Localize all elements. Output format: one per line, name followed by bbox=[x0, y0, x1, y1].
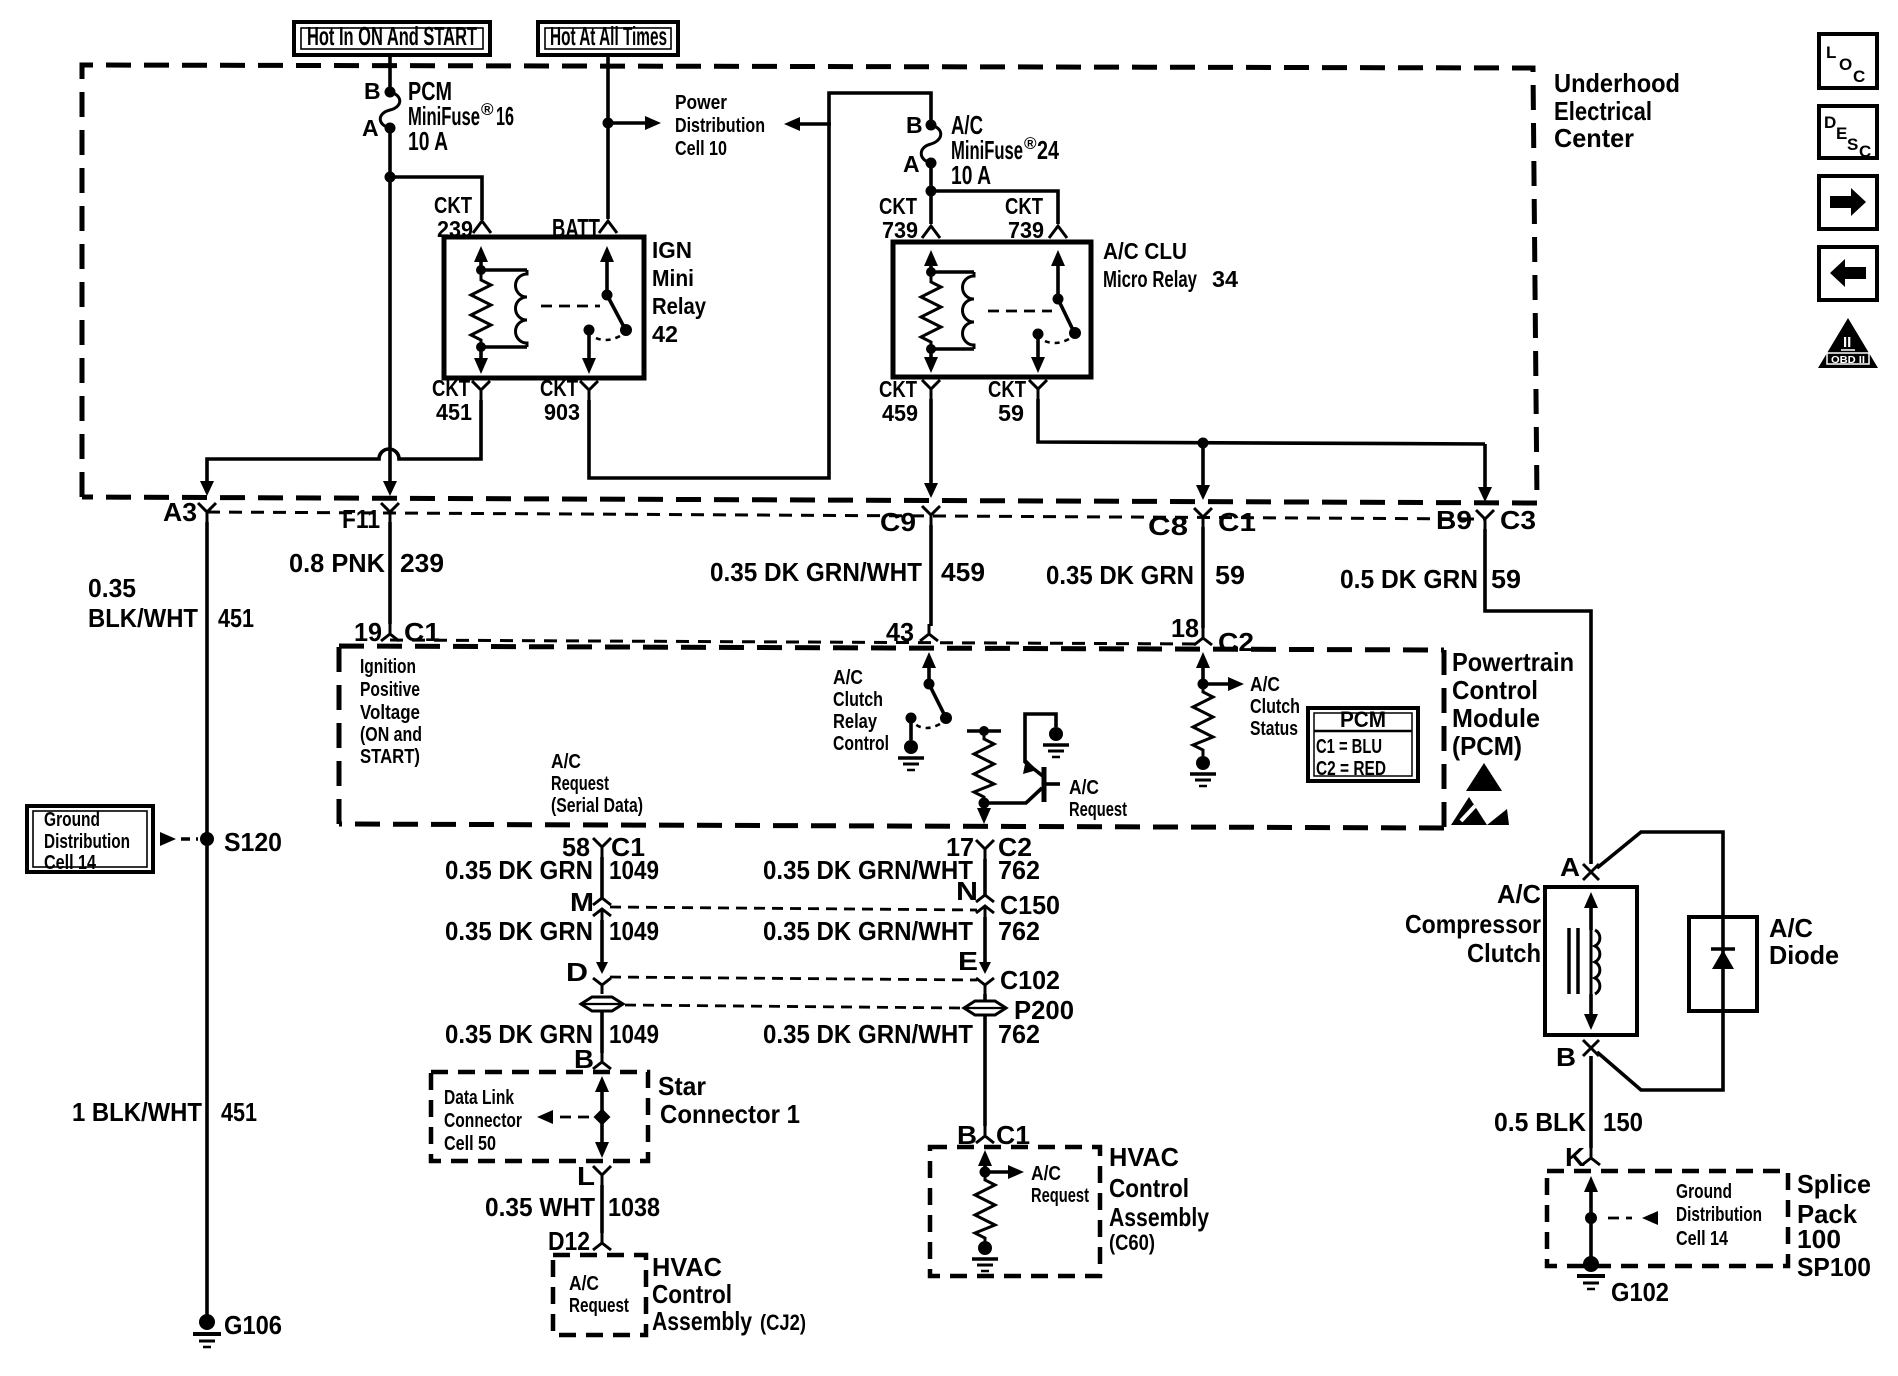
label CKT 903 bbox=[540, 375, 580, 425]
svg-text:0.35 DK GRN/WHT: 0.35 DK GRN/WHT bbox=[763, 1019, 973, 1049]
coil (relay34) bbox=[963, 272, 974, 349]
transistor bar bbox=[1042, 767, 1047, 802]
pin D12 (inverted Y) bbox=[593, 1233, 611, 1250]
svg-text:18: 18 bbox=[1171, 613, 1199, 643]
HVAC Control Assembly (CJ2) dashed box bbox=[553, 1255, 646, 1335]
svg-text:BLK/WHT: BLK/WHT bbox=[88, 603, 198, 633]
svg-text:43: 43 bbox=[886, 617, 914, 647]
label IGN Mini Relay 42 bbox=[652, 237, 706, 347]
svg-text:Electrical: Electrical bbox=[1554, 96, 1652, 126]
dashed connector line grommet-P200 bbox=[625, 1005, 962, 1008]
svg-text:0.35 DK GRN/WHT: 0.35 DK GRN/WHT bbox=[763, 916, 973, 946]
svg-text:Clutch: Clutch bbox=[1467, 938, 1541, 968]
svg-text:739: 739 bbox=[882, 217, 918, 243]
svg-text:Micro Relay: Micro Relay bbox=[1103, 266, 1197, 292]
header box: Hot In ON And START bbox=[294, 21, 490, 55]
svg-text:19: 19 bbox=[354, 617, 382, 647]
relay box IGN Mini Relay 42 bbox=[444, 237, 644, 378]
A/C Diode box bbox=[1689, 917, 1757, 1011]
node: junction CKT59 over C8 bbox=[1198, 438, 1209, 449]
svg-text:Distribution: Distribution bbox=[1676, 1204, 1762, 1226]
PCM connector dotted line bbox=[390, 640, 1203, 644]
label CKT 739 left bbox=[879, 193, 918, 243]
relay control switch arm bbox=[929, 684, 944, 714]
svg-text:(Serial Data): (Serial Data) bbox=[551, 795, 643, 817]
label 0.35 BLK/WHT 451 bbox=[88, 573, 254, 633]
svg-text:Splice: Splice bbox=[1797, 1169, 1871, 1199]
svg-text:A/C: A/C bbox=[1497, 879, 1541, 909]
label Data Link Connector Cell 50 bbox=[444, 1087, 522, 1155]
svg-text:SP100: SP100 bbox=[1797, 1252, 1871, 1282]
svg-text:C2 = RED: C2 = RED bbox=[1316, 758, 1386, 780]
pin B compressor (X) bbox=[1583, 1040, 1599, 1056]
svg-text:A3: A3 bbox=[163, 497, 197, 527]
wire to internal ground (relay control) bbox=[909, 718, 913, 740]
compressor internal wire arrow up bbox=[1584, 892, 1598, 930]
wire B to K bbox=[1589, 1056, 1593, 1148]
svg-text:D: D bbox=[566, 957, 588, 987]
label 0.35 DK GRN/WHT 762 (row2) bbox=[763, 916, 1040, 946]
svg-text:Clutch: Clutch bbox=[1250, 696, 1300, 718]
label Ignition Positive Voltage (ON and START) bbox=[360, 656, 422, 768]
pin CKT 459 (Y) bbox=[922, 380, 940, 399]
svg-text:24: 24 bbox=[1037, 135, 1059, 165]
svg-text:IGN: IGN bbox=[652, 237, 692, 263]
wire coil top link (relay34) bbox=[931, 270, 974, 274]
svg-text:Control: Control bbox=[833, 733, 889, 755]
pin M (double chevron) bbox=[593, 898, 611, 920]
wire 58 to M bbox=[600, 857, 604, 898]
relay42 switch throw dashed arc bbox=[592, 336, 620, 340]
svg-text:C: C bbox=[1853, 67, 1865, 86]
arrowhead down at PCM edge (pin 17) bbox=[977, 808, 991, 824]
label CKT 739 right bbox=[1005, 193, 1044, 243]
relay42 switched output arrow (down) bbox=[582, 330, 596, 374]
pin BATT (chevron) bbox=[599, 221, 617, 233]
wire diode loop bottom bbox=[1597, 1011, 1723, 1090]
pin D (arrow down + chevron) bbox=[593, 962, 611, 994]
svg-text:1 BLK/WHT: 1 BLK/WHT bbox=[72, 1097, 202, 1127]
svg-text:A/C CLU: A/C CLU bbox=[1103, 238, 1187, 264]
label Star Connector 1 bbox=[658, 1071, 800, 1129]
wire M to D bbox=[600, 920, 604, 962]
pin B star connector (inverted Y) bbox=[593, 1053, 611, 1069]
pin 19 C1 (inverted Y) bbox=[381, 624, 399, 641]
pin K (inverted Y) bbox=[1582, 1148, 1600, 1165]
PCM connector color table bbox=[1308, 707, 1418, 781]
label A/C Clutch Status bbox=[1250, 674, 1300, 740]
status branch arrow (right) bbox=[1203, 677, 1244, 691]
A/C clutch status arrow (up, into pin 18) bbox=[1196, 652, 1210, 684]
label Splice Pack 100 SP100 bbox=[1797, 1169, 1871, 1282]
svg-text:CKT: CKT bbox=[434, 192, 472, 218]
node: star connector junction (diamond) bbox=[594, 1109, 611, 1126]
arrowhead down at UEC edge (C8) bbox=[1196, 485, 1210, 500]
wire arrow from Power Distribution Cell 10 (left-pointing) into fuse 24 feed bbox=[784, 117, 831, 131]
label A/C Clutch Relay Control bbox=[833, 667, 889, 755]
clutch plates bbox=[1569, 928, 1578, 994]
svg-text:Control: Control bbox=[652, 1279, 732, 1309]
ground G106 bbox=[193, 1314, 221, 1347]
pin CKT 451 (Y) bbox=[472, 381, 490, 400]
svg-text:S: S bbox=[1847, 135, 1858, 154]
wire C9 down to PCM pin 43 bbox=[929, 525, 933, 626]
label 0.35 DK GRN/WHT 459 bbox=[710, 557, 985, 587]
pin 58 C1 (Y) bbox=[593, 838, 611, 857]
HVAC Control Assembly (C60) dashed box bbox=[930, 1147, 1100, 1276]
svg-text:C1 = BLU: C1 = BLU bbox=[1316, 736, 1382, 758]
node: junction at fuse 24 output bbox=[926, 186, 937, 197]
wire P200 to B bbox=[983, 1015, 987, 1126]
pin N (double chevron) bbox=[976, 895, 994, 917]
icon arrow left bbox=[1819, 247, 1877, 300]
node: switch arm contact (relay34) bbox=[1069, 327, 1081, 339]
svg-text:(PCM): (PCM) bbox=[1452, 731, 1522, 761]
svg-text:Status: Status bbox=[1250, 718, 1298, 740]
svg-text:(CJ2): (CJ2) bbox=[760, 1310, 806, 1335]
svg-text:®: ® bbox=[1024, 134, 1037, 153]
Star Connector 1 dashed box bbox=[431, 1072, 648, 1161]
svg-text:(ON and: (ON and bbox=[360, 724, 422, 746]
pin A compressor (X) bbox=[1583, 864, 1599, 880]
wire CKT 451 run to A3 (hops over F11 wire) bbox=[207, 400, 481, 485]
label A/C Request (Serial Data) bbox=[551, 751, 643, 817]
header box: Hot At All Times bbox=[538, 21, 678, 55]
svg-text:CKT: CKT bbox=[879, 193, 917, 219]
svg-text:1049: 1049 bbox=[609, 1019, 659, 1049]
svg-text:762: 762 bbox=[998, 916, 1040, 946]
A/C Compressor Clutch box bbox=[1545, 887, 1637, 1035]
svg-text:459: 459 bbox=[941, 557, 985, 587]
label 0.5 BLK 150 bbox=[1494, 1107, 1643, 1137]
wire 17 to N bbox=[983, 859, 987, 895]
svg-text:Ground: Ground bbox=[44, 809, 100, 831]
svg-text:E: E bbox=[1836, 124, 1847, 143]
wire A3 down full left column bbox=[205, 522, 209, 1316]
svg-text:0.35 DK GRN: 0.35 DK GRN bbox=[445, 855, 593, 885]
relay34 switched output arrow (down) bbox=[1031, 334, 1045, 373]
pin B C1 (inverted Y) bbox=[976, 1126, 994, 1143]
label A/C Compressor Clutch bbox=[1405, 879, 1541, 968]
node: splice junction SP100 bbox=[1585, 1212, 1597, 1224]
label CKT 459 bbox=[879, 376, 918, 426]
relay42 switch arm bbox=[607, 295, 624, 327]
relay34 coil-side pin arrow (up) bbox=[924, 250, 938, 272]
svg-text:Distribution: Distribution bbox=[44, 831, 130, 853]
svg-text:A/C: A/C bbox=[1031, 1163, 1061, 1185]
wire E to P200 bbox=[983, 994, 987, 1001]
svg-text:1049: 1049 bbox=[609, 916, 659, 946]
svg-text:S120: S120 bbox=[224, 827, 282, 857]
svg-text:C1: C1 bbox=[404, 617, 440, 647]
svg-text:START): START) bbox=[360, 746, 420, 768]
svg-text:C102: C102 bbox=[1000, 965, 1060, 995]
svg-text:Star: Star bbox=[658, 1071, 706, 1101]
svg-text:O: O bbox=[1839, 55, 1852, 74]
svg-text:150: 150 bbox=[1603, 1107, 1643, 1137]
transistor collector with arrow bbox=[1023, 759, 1044, 777]
svg-text:1049: 1049 bbox=[609, 855, 659, 885]
label 0.35 DK GRN/WHT 762 (row3) bbox=[763, 1019, 1040, 1049]
svg-text:B: B bbox=[364, 78, 381, 104]
splice pack wire arrow (up) bbox=[1584, 1176, 1598, 1260]
svg-text:0.35 DK GRN/WHT: 0.35 DK GRN/WHT bbox=[710, 557, 922, 587]
node: switched output (relay42) bbox=[584, 325, 595, 336]
icon LOC bbox=[1819, 34, 1877, 88]
pin CKT 59 (Y) bbox=[1029, 380, 1047, 399]
svg-text:C3: C3 bbox=[1500, 505, 1536, 535]
svg-text:59: 59 bbox=[998, 400, 1024, 426]
svg-text:Relay: Relay bbox=[833, 711, 878, 733]
arrow from ground distribution to S120 bbox=[160, 832, 198, 846]
label CKT 239 bbox=[434, 192, 473, 242]
ground G102 bbox=[1577, 1256, 1605, 1289]
label A/C CLU Micro Relay 34 bbox=[1103, 238, 1238, 292]
relay42 switch common arrow (up) bbox=[600, 246, 614, 295]
node: junction on BATT wire bbox=[603, 118, 614, 129]
svg-text:Connector: Connector bbox=[444, 1110, 522, 1132]
svg-text:G106: G106 bbox=[224, 1310, 282, 1340]
resistor (relay42) bbox=[471, 270, 491, 348]
label CKT 59 bbox=[988, 376, 1026, 426]
transistor base stub bbox=[1044, 782, 1060, 786]
svg-text:C8: C8 bbox=[1148, 511, 1188, 541]
relay control dashed arc bbox=[915, 724, 940, 728]
wire coil top link bbox=[481, 268, 527, 272]
svg-text:Request: Request bbox=[569, 1295, 629, 1317]
svg-text:D: D bbox=[1824, 113, 1836, 132]
svg-text:PCM: PCM bbox=[1340, 707, 1386, 732]
svg-text:Module: Module bbox=[1452, 703, 1540, 733]
node: relay control arm contact bbox=[940, 712, 952, 724]
pin CKT 739 left (chevron) bbox=[922, 226, 940, 238]
svg-text:C9: C9 bbox=[880, 507, 916, 537]
node: coil top junction (relay34) bbox=[926, 267, 936, 277]
svg-text:Cell 14: Cell 14 bbox=[1676, 1228, 1729, 1250]
svg-text:0.35 DK GRN/WHT: 0.35 DK GRN/WHT bbox=[763, 855, 973, 885]
pin E (arrow down + chevron) bbox=[976, 962, 994, 994]
compressor internal wire arrow down bbox=[1584, 994, 1598, 1030]
svg-text:100: 100 bbox=[1797, 1224, 1841, 1254]
svg-text:L: L bbox=[577, 1161, 595, 1191]
label A/C Request (CJ2) bbox=[569, 1273, 629, 1317]
relay42 coil-side pin arrow (up) bbox=[474, 246, 488, 270]
svg-text:59: 59 bbox=[1491, 564, 1521, 594]
label 1 BLK/WHT 451 bbox=[72, 1097, 257, 1127]
label 0.35 DK GRN 1049 (row1) bbox=[445, 855, 659, 885]
svg-text:E: E bbox=[958, 946, 978, 976]
svg-text:A: A bbox=[1560, 852, 1580, 882]
svg-text:Ground: Ground bbox=[1676, 1181, 1732, 1203]
svg-text:0.35 DK GRN: 0.35 DK GRN bbox=[445, 916, 593, 946]
label A/C Request (C60) bbox=[1031, 1163, 1089, 1207]
svg-text:Clutch: Clutch bbox=[833, 689, 883, 711]
grommet (left, pass-through) bbox=[581, 997, 623, 1011]
svg-text:CKT: CKT bbox=[432, 375, 470, 401]
PCM dashed box bbox=[339, 646, 1444, 828]
pin C8/C1 (Y) bbox=[1194, 508, 1212, 527]
wire branch to relay CKT 239 pin bbox=[390, 177, 482, 220]
dashed arrow to Ground Distribution Cell 14 bbox=[1608, 1211, 1658, 1225]
wire CKT 59 run bbox=[1038, 399, 1485, 444]
relay34 switch arm bbox=[1058, 299, 1073, 330]
Ground Distribution Cell 14 box (left) bbox=[27, 806, 153, 874]
svg-text:Center: Center bbox=[1554, 123, 1634, 153]
label A/C Request (transistor) bbox=[1069, 777, 1127, 821]
svg-text:A/C: A/C bbox=[833, 667, 863, 689]
node: coil top junction bbox=[476, 265, 486, 275]
svg-text:903: 903 bbox=[544, 399, 580, 425]
svg-text:G102: G102 bbox=[1611, 1277, 1669, 1307]
svg-text:34: 34 bbox=[1212, 266, 1238, 292]
wire branch to relay CKT 739 right pin bbox=[931, 191, 1058, 224]
star connector wire arrow (up) bbox=[595, 1076, 609, 1112]
pin CKT 739 right (chevron) bbox=[1049, 226, 1067, 238]
A/C clutch relay control arrow (up, into pin 43) bbox=[922, 652, 936, 684]
svg-text:Voltage: Voltage bbox=[360, 702, 420, 724]
connector strip dotted line below UEC bbox=[207, 512, 1485, 519]
svg-text:Powertrain: Powertrain bbox=[1452, 647, 1574, 677]
pin CKT 903 (Y) bbox=[580, 381, 598, 400]
label HVAC Control Assembly (C60) bbox=[1109, 1142, 1209, 1255]
Underhood Electrical Center label bbox=[1554, 68, 1680, 153]
wire CKT 459 down to C9 bbox=[929, 399, 933, 487]
wire down to B9 bbox=[1483, 444, 1487, 491]
icon DESC bbox=[1819, 106, 1877, 161]
pin C9 (Y) bbox=[922, 506, 940, 525]
svg-text:A/C: A/C bbox=[1769, 913, 1813, 943]
svg-text:II: II bbox=[1843, 334, 1851, 351]
svg-text:M: M bbox=[570, 887, 594, 917]
grommet P200 bbox=[964, 1001, 1006, 1015]
label 0.35 WHT 1038 bbox=[485, 1192, 660, 1222]
wire from fuse A down to junction bbox=[388, 131, 392, 180]
diode symbol bbox=[1711, 917, 1735, 1011]
wire F11 drop from junction bbox=[388, 177, 392, 485]
wire emitter down to pin 17 bbox=[982, 803, 986, 812]
icon arrow right bbox=[1819, 176, 1877, 229]
svg-text:Hot In ON And START: Hot In ON And START bbox=[307, 21, 477, 51]
label CKT 451 bbox=[432, 375, 472, 425]
svg-text:451: 451 bbox=[436, 399, 472, 425]
svg-text:0.35 DK GRN: 0.35 DK GRN bbox=[445, 1019, 593, 1049]
svg-text:10 A: 10 A bbox=[951, 160, 991, 190]
label 0.35 DK GRN/WHT 762 (row1) bbox=[763, 855, 1040, 885]
svg-text:HVAC: HVAC bbox=[652, 1252, 722, 1282]
node: status junction bbox=[1198, 679, 1209, 690]
pin CKT 239 (chevron) bbox=[473, 221, 491, 233]
label 0.35 DK GRN 59 bbox=[1046, 560, 1245, 590]
svg-text:1038: 1038 bbox=[608, 1192, 660, 1222]
svg-text:OBD II: OBD II bbox=[1831, 355, 1865, 366]
Underhood Electrical Center dashed box bbox=[82, 65, 1537, 503]
label Ground Distribution Cell 14 (right) bbox=[1676, 1181, 1762, 1250]
svg-text:B: B bbox=[1556, 1042, 1576, 1072]
wire L to D12 bbox=[600, 1185, 604, 1233]
pin 43 (inverted Y) bbox=[920, 624, 938, 641]
wire C8 down to PCM pin 18 bbox=[1201, 527, 1205, 628]
svg-text:0.35 WHT: 0.35 WHT bbox=[485, 1192, 595, 1222]
svg-text:Request: Request bbox=[1069, 799, 1127, 821]
label 0.8 PNK 239 bbox=[289, 548, 444, 578]
wire CKT 903 run up to fuse 24 feed bbox=[589, 93, 931, 478]
label HVAC Control Assembly (CJ2) bbox=[652, 1252, 806, 1336]
collector loop to ground bbox=[1025, 714, 1056, 763]
relay34 coil-side output arrow (down) bbox=[924, 349, 938, 373]
svg-text:Assembly: Assembly bbox=[652, 1306, 752, 1336]
ESD sensitivity symbol bbox=[1451, 763, 1509, 825]
label Power Distribution Cell 10 bbox=[675, 92, 765, 160]
fuse PCM MiniFuse 16 10A bbox=[362, 76, 514, 156]
node: switched output (relay34) bbox=[1033, 329, 1044, 340]
svg-text:42: 42 bbox=[652, 321, 678, 347]
svg-text:C: C bbox=[1859, 142, 1871, 161]
HVAC request branch arrow (right) bbox=[985, 1165, 1024, 1179]
arrowhead down at UEC edge (B9) bbox=[1478, 487, 1492, 502]
label 0.35 DK GRN 1049 (row2) bbox=[445, 916, 659, 946]
svg-text:Mini: Mini bbox=[652, 265, 694, 291]
coil (relay42) bbox=[516, 270, 528, 347]
svg-text:451: 451 bbox=[218, 603, 254, 633]
pin 17 C2 (Y) bbox=[976, 840, 994, 859]
arrowhead down at UEC edge (F11) bbox=[383, 481, 397, 496]
svg-text:Control: Control bbox=[1452, 675, 1538, 705]
svg-text:C1: C1 bbox=[1218, 507, 1256, 537]
node: coil bottom junction bbox=[476, 342, 486, 352]
svg-text:Request: Request bbox=[551, 773, 609, 795]
Splice Pack 100 dashed box bbox=[1547, 1171, 1788, 1266]
pin L (Y) bbox=[593, 1166, 611, 1185]
clutch coil bbox=[1591, 928, 1600, 996]
pin B9/C3 (Y) bbox=[1476, 510, 1494, 529]
svg-text:239: 239 bbox=[400, 548, 444, 578]
wire grommet to B bbox=[600, 1011, 604, 1053]
relay34 switch common arrow (up) bbox=[1051, 250, 1065, 299]
HVAC C60 wire arrow (up) bbox=[978, 1150, 992, 1172]
svg-text:Cell 10: Cell 10 bbox=[675, 138, 727, 160]
resistor (A/C request base) bbox=[974, 731, 994, 803]
svg-text:10 A: 10 A bbox=[408, 126, 448, 156]
relay box A/C CLU Micro Relay 34 bbox=[893, 242, 1091, 377]
wire diode loop top bbox=[1597, 832, 1723, 917]
node: splice S120 bbox=[200, 832, 214, 846]
node: coil bottom junction (relay34) bbox=[926, 344, 936, 354]
svg-text:739: 739 bbox=[1008, 217, 1044, 243]
node: HVAC request junction bbox=[980, 1167, 991, 1178]
arrowhead down at UEC edge (C9) bbox=[924, 483, 938, 498]
wire F11 down to PCM pin 19 bbox=[388, 522, 392, 624]
wire from fuse 24 A to junction bbox=[929, 166, 933, 194]
svg-text:A: A bbox=[903, 151, 920, 177]
svg-text:HVAC: HVAC bbox=[1109, 1142, 1179, 1172]
svg-text:0.8 PNK: 0.8 PNK bbox=[289, 548, 385, 578]
star connector wire arrow (down) bbox=[595, 1123, 609, 1158]
svg-text:Diode: Diode bbox=[1769, 940, 1839, 970]
dashed connector line D-E (C102) bbox=[610, 977, 977, 980]
label 0.5 DK GRN 59 bbox=[1340, 564, 1521, 594]
label A/C Diode bbox=[1769, 913, 1839, 970]
svg-text:451: 451 bbox=[221, 1097, 257, 1127]
transistor emitter link bbox=[984, 788, 1042, 803]
svg-text:Distribution: Distribution bbox=[675, 115, 765, 137]
node: junction at fuse output bbox=[385, 172, 396, 183]
svg-text:Cell 14: Cell 14 bbox=[44, 852, 97, 874]
svg-text:L: L bbox=[1826, 43, 1836, 62]
wire to CKT 739 left pin bbox=[929, 191, 933, 224]
svg-text:A/C: A/C bbox=[1069, 777, 1099, 799]
pin 18 C2 (inverted Y) bbox=[1194, 628, 1212, 645]
svg-text:A: A bbox=[362, 115, 379, 141]
